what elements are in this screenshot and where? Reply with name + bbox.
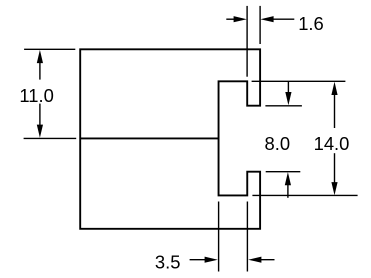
extension line 3.5 right [246,202,248,272]
arrowhead 11.0 down [37,125,43,138]
svg-text:14.0: 14.0 [314,133,350,154]
svg-text:11.0: 11.0 [19,85,53,106]
arrowhead 14.0 up [331,82,337,95]
part outline (T-slot block) [80,49,260,228]
dimension line 1.6 right shaft [268,18,294,20]
extension line 11.0 bottom [24,137,77,139]
dimension 14.0 upper shaft [334,89,336,128]
svg-text:3.5: 3.5 [155,251,181,272]
dimension line 11.0 lower shaft [39,104,41,131]
arrowhead 8.0 down [285,92,291,105]
dimension 14.0 lower shaft [334,153,336,188]
arrowhead 1.6 right [260,16,273,22]
extension line 1.6 right [259,6,261,44]
dimension line 11.0 upper shaft [39,57,41,80]
slot centerline [80,137,218,139]
extension line 11.0 top [24,48,75,50]
extension line y172 right (lower lip top) [266,171,301,173]
arrowhead 8.0 up [285,172,291,185]
dimension 3.5 right shaft [257,259,275,261]
dimension 3.5 left shaft [190,259,208,261]
dimension 8.0 lower shaft [287,183,289,198]
svg-text:8.0: 8.0 [265,133,291,154]
extension line 1.6 left [246,6,248,77]
dimension line 1.6 left shaft [226,18,241,20]
arrowhead 3.5 left-pointing [248,257,261,263]
arrowhead 3.5 right-pointing [205,257,218,263]
extension line 3.5 left [218,202,220,272]
extension line y106 right (upper lip bottom) [265,105,302,107]
arrowhead 1.6 left [234,16,247,22]
extension line y195 right (bottom of T cavity) [252,194,357,196]
arrowhead 14.0 down [331,182,337,195]
extension line y81 right (top of T cavity) [252,80,346,82]
svg-text:1.6: 1.6 [298,13,324,34]
arrowhead 11.0 up [37,50,43,63]
dimension 8.0 upper shaft [287,82,289,94]
